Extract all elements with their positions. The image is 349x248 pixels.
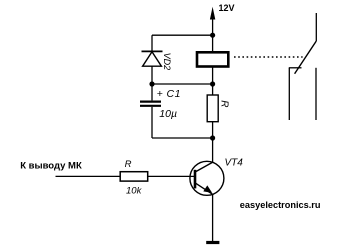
svg-text:12V: 12V bbox=[219, 3, 235, 13]
svg-text:К выводу МК: К выводу МК bbox=[20, 160, 82, 171]
svg-text:easyelectronics.ru: easyelectronics.ru bbox=[240, 200, 321, 210]
svg-text:VT4: VT4 bbox=[225, 157, 244, 168]
svg-text:+ C1: + C1 bbox=[157, 88, 181, 100]
svg-text:R: R bbox=[219, 100, 230, 107]
svg-text:10µ: 10µ bbox=[159, 108, 177, 120]
svg-text:10k: 10k bbox=[126, 186, 143, 197]
svg-text:R: R bbox=[125, 159, 132, 170]
svg-text:VD2: VD2 bbox=[162, 53, 172, 71]
